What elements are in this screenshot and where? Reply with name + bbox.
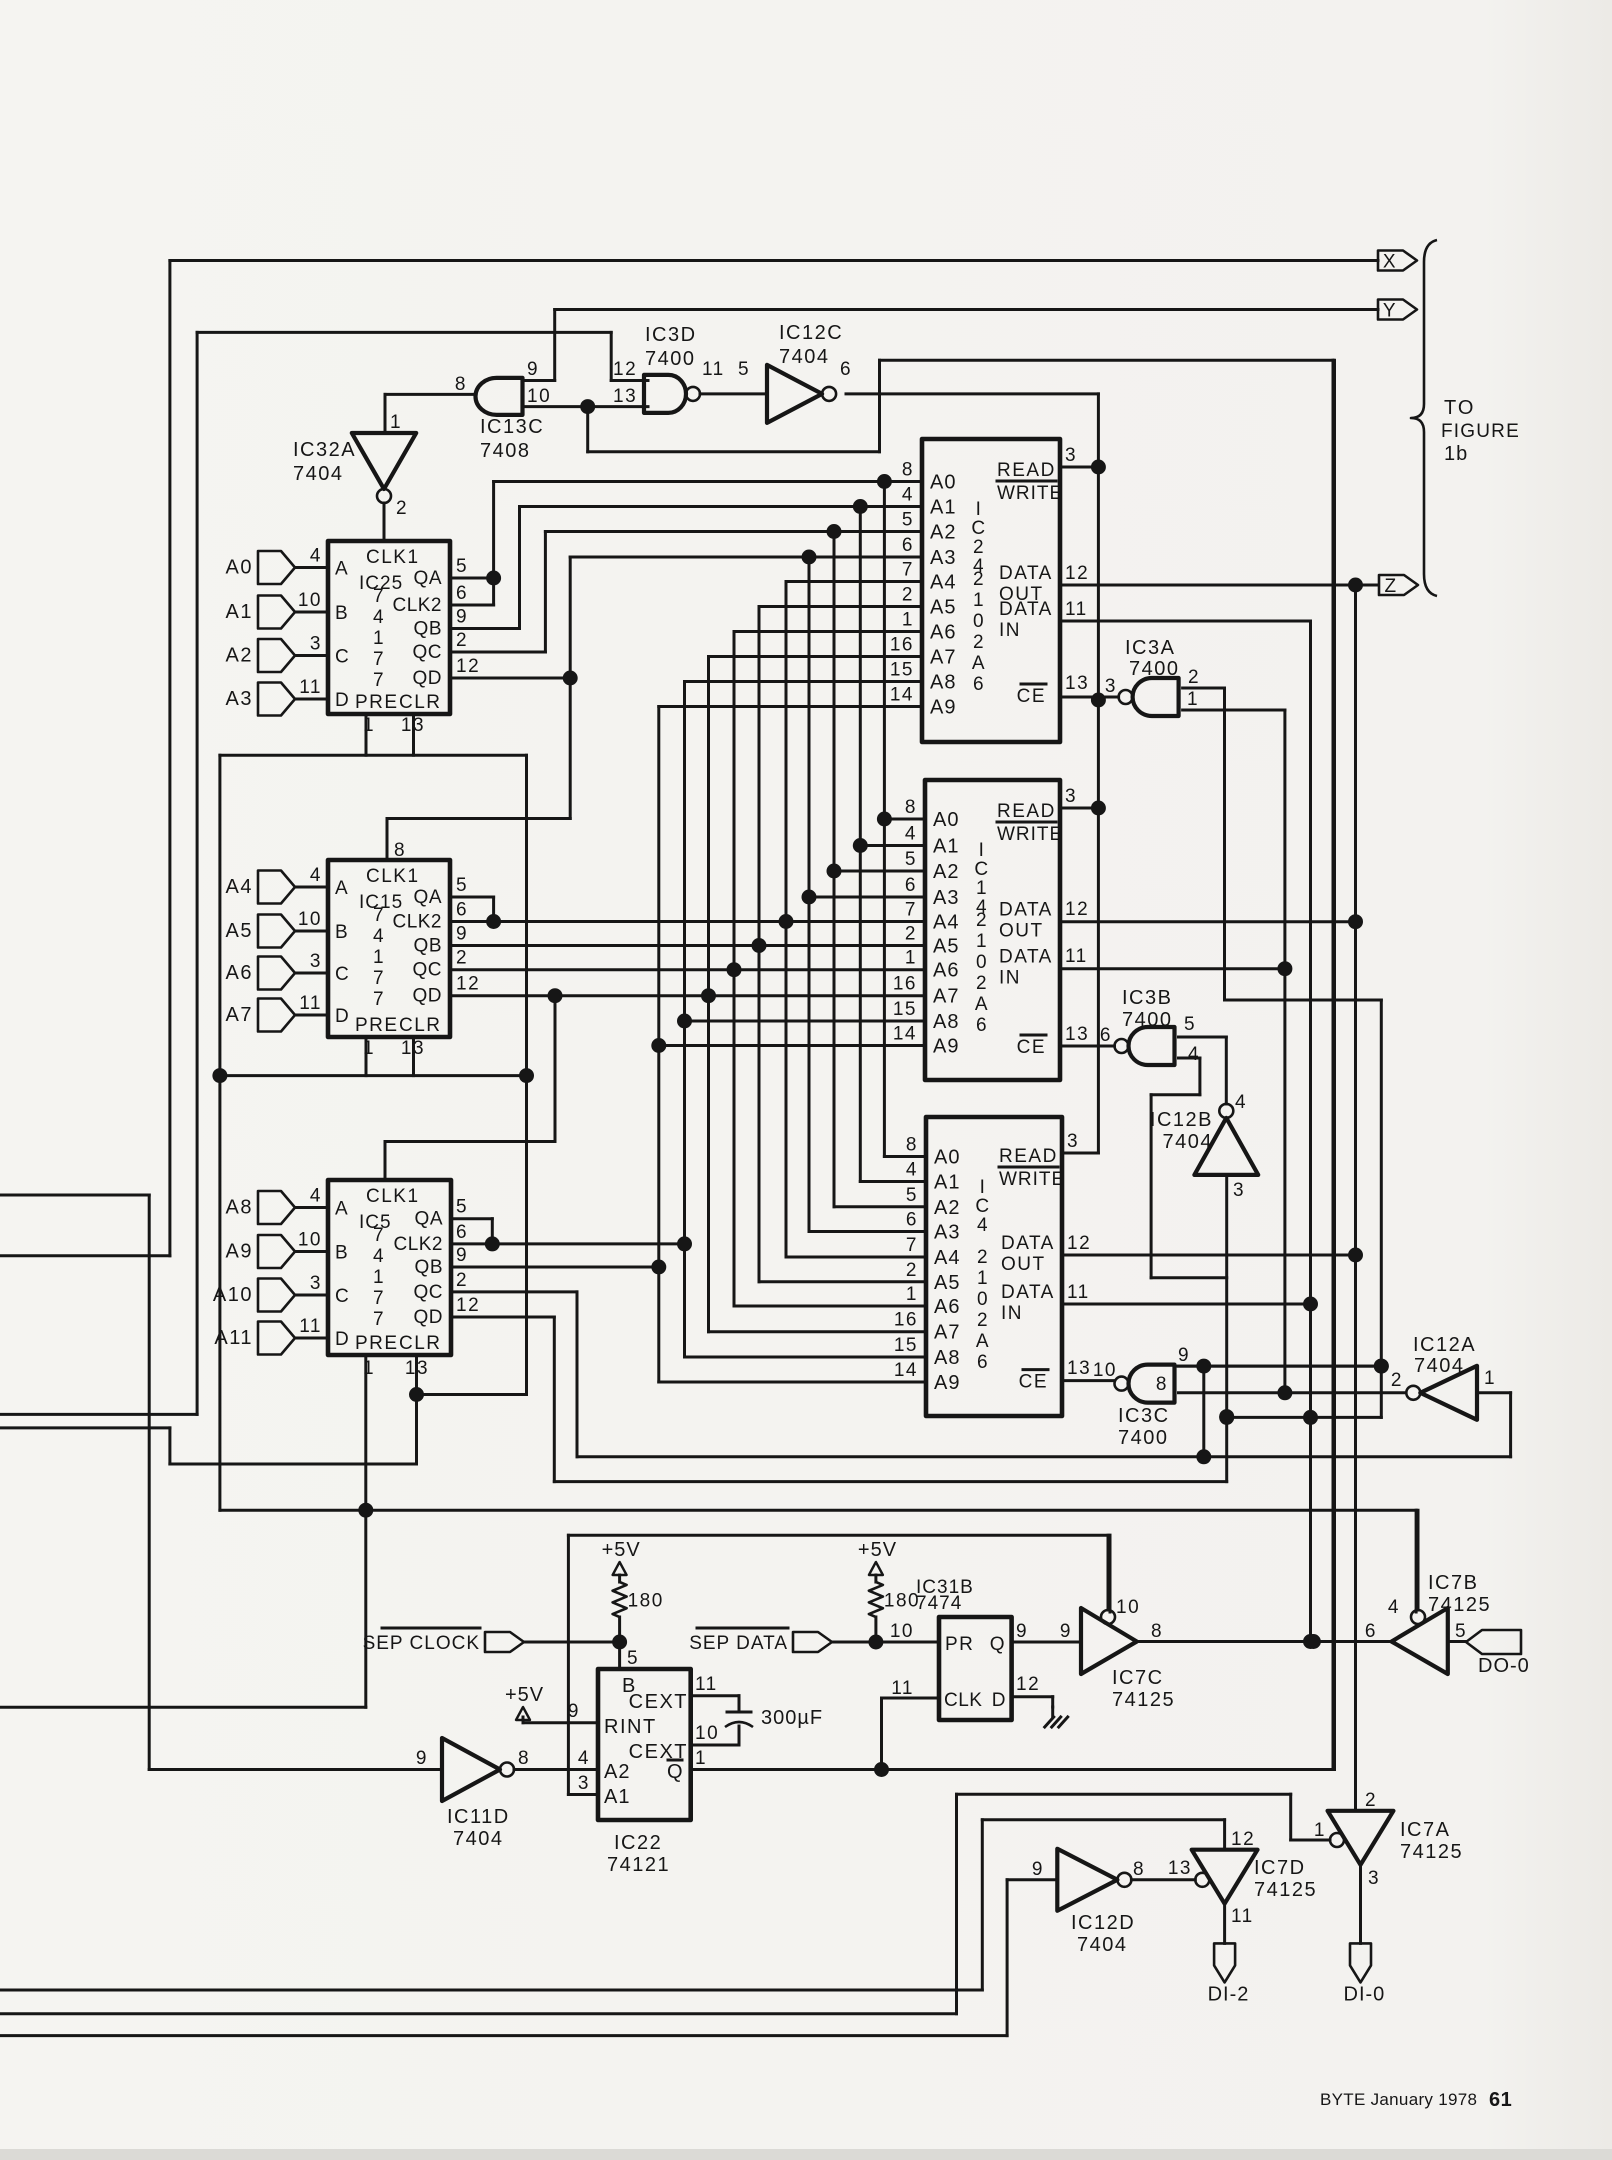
svg-text:CLR: CLR bbox=[399, 1015, 442, 1036]
svg-text:7400: 7400 bbox=[1122, 1009, 1173, 1031]
svg-text:A3: A3 bbox=[934, 1222, 960, 1244]
svg-text:WRITE: WRITE bbox=[997, 483, 1063, 504]
svg-text:IC32A: IC32A bbox=[293, 439, 356, 461]
svg-text:1: 1 bbox=[902, 610, 914, 631]
svg-text:1: 1 bbox=[363, 715, 375, 736]
svg-text:C: C bbox=[335, 1286, 350, 1307]
svg-text:A6: A6 bbox=[934, 1296, 960, 1318]
svg-text:IN: IN bbox=[1001, 1303, 1023, 1324]
svg-text:2: 2 bbox=[1391, 1370, 1403, 1391]
svg-text:CLK: CLK bbox=[944, 1690, 982, 1711]
svg-text:6: 6 bbox=[456, 1222, 468, 1243]
svg-text:2: 2 bbox=[977, 1247, 989, 1268]
svg-text:4: 4 bbox=[906, 1160, 918, 1181]
svg-text:OUT: OUT bbox=[1001, 1254, 1046, 1275]
svg-text:CLK2: CLK2 bbox=[392, 912, 442, 933]
svg-text:A0: A0 bbox=[934, 1147, 960, 1169]
svg-text:CLK1: CLK1 bbox=[366, 547, 420, 568]
svg-text:7: 7 bbox=[906, 1235, 918, 1256]
svg-text:IC7C: IC7C bbox=[1112, 1667, 1164, 1689]
svg-text:A4: A4 bbox=[934, 1247, 960, 1269]
svg-text:4: 4 bbox=[373, 926, 385, 947]
svg-text:A6: A6 bbox=[933, 960, 959, 982]
svg-text:C: C bbox=[335, 964, 350, 985]
svg-text:10: 10 bbox=[890, 1621, 914, 1642]
svg-text:CLR: CLR bbox=[399, 1333, 442, 1354]
svg-text:A4: A4 bbox=[226, 876, 253, 898]
svg-text:4: 4 bbox=[578, 1748, 590, 1769]
svg-text:B: B bbox=[335, 922, 349, 943]
svg-text:7404: 7404 bbox=[1414, 1355, 1465, 1377]
svg-text:A9: A9 bbox=[933, 1036, 959, 1058]
svg-text:X: X bbox=[1383, 252, 1397, 273]
svg-text:A9: A9 bbox=[226, 1241, 253, 1263]
svg-text:16: 16 bbox=[893, 974, 917, 995]
svg-text:1: 1 bbox=[1484, 1368, 1496, 1389]
svg-text:3: 3 bbox=[1065, 445, 1077, 466]
svg-text:2: 2 bbox=[1365, 1790, 1377, 1811]
svg-text:13: 13 bbox=[1168, 1858, 1192, 1879]
svg-text:6: 6 bbox=[976, 1015, 988, 1036]
svg-text:7: 7 bbox=[373, 989, 385, 1010]
svg-text:QD: QD bbox=[413, 668, 443, 689]
svg-text:12: 12 bbox=[1067, 1233, 1091, 1254]
svg-text:CEXT: CEXT bbox=[629, 1741, 688, 1763]
svg-text:D: D bbox=[992, 1690, 1007, 1711]
svg-text:A2: A2 bbox=[604, 1761, 630, 1783]
svg-text:DATA: DATA bbox=[999, 563, 1053, 584]
svg-text:12: 12 bbox=[456, 1295, 480, 1316]
svg-text:8: 8 bbox=[455, 374, 467, 395]
svg-text:I: I bbox=[980, 1177, 987, 1198]
svg-text:13: 13 bbox=[401, 715, 425, 736]
svg-text:7: 7 bbox=[373, 1225, 385, 1246]
svg-text:Q: Q bbox=[990, 1634, 1006, 1655]
svg-text:QA: QA bbox=[415, 1209, 443, 1230]
svg-text:3: 3 bbox=[578, 1773, 590, 1794]
svg-text:IN: IN bbox=[999, 620, 1021, 641]
svg-text:7: 7 bbox=[373, 649, 385, 670]
svg-text:14: 14 bbox=[894, 1360, 918, 1381]
svg-text:+5V: +5V bbox=[505, 1684, 544, 1706]
svg-text:2: 2 bbox=[976, 910, 988, 931]
svg-text:3: 3 bbox=[310, 951, 322, 972]
svg-text:DATA: DATA bbox=[1001, 1282, 1055, 1303]
svg-text:CE: CE bbox=[1017, 686, 1046, 707]
svg-text:8: 8 bbox=[906, 1135, 918, 1156]
svg-text:1: 1 bbox=[1314, 1820, 1326, 1841]
svg-text:IC13C: IC13C bbox=[480, 416, 544, 438]
svg-text:9: 9 bbox=[456, 924, 468, 945]
svg-text:74125: 74125 bbox=[1254, 1879, 1317, 1901]
svg-text:C: C bbox=[975, 1196, 990, 1217]
svg-text:74125: 74125 bbox=[1428, 1594, 1491, 1616]
svg-text:8: 8 bbox=[1151, 1621, 1163, 1642]
svg-text:6: 6 bbox=[840, 359, 852, 380]
svg-text:4: 4 bbox=[310, 546, 322, 567]
svg-text:CEXT: CEXT bbox=[629, 1691, 688, 1713]
svg-text:74125: 74125 bbox=[1400, 1841, 1463, 1863]
svg-text:6: 6 bbox=[902, 535, 914, 556]
svg-text:C: C bbox=[335, 647, 350, 668]
svg-text:6: 6 bbox=[905, 875, 917, 896]
svg-text:7400: 7400 bbox=[645, 348, 696, 370]
svg-text:3: 3 bbox=[1233, 1180, 1245, 1201]
svg-text:15: 15 bbox=[894, 1335, 918, 1356]
svg-text:PRE: PRE bbox=[355, 692, 399, 713]
svg-text:8: 8 bbox=[902, 460, 914, 481]
svg-text:2: 2 bbox=[976, 973, 988, 994]
svg-text:DI-0: DI-0 bbox=[1344, 1983, 1386, 2005]
svg-text:6: 6 bbox=[906, 1210, 918, 1231]
svg-text:7: 7 bbox=[373, 1288, 385, 1309]
svg-text:11: 11 bbox=[1065, 946, 1088, 967]
svg-text:14: 14 bbox=[890, 685, 914, 706]
svg-text:9: 9 bbox=[1178, 1345, 1190, 1366]
svg-text:6: 6 bbox=[1365, 1621, 1377, 1642]
svg-text:A2: A2 bbox=[930, 522, 956, 544]
svg-text:A: A bbox=[335, 559, 349, 580]
svg-text:3: 3 bbox=[310, 634, 322, 655]
svg-text:74121: 74121 bbox=[607, 1854, 670, 1876]
svg-text:IC7A: IC7A bbox=[1400, 1819, 1450, 1841]
svg-text:1: 1 bbox=[373, 628, 385, 649]
svg-text:13: 13 bbox=[1065, 673, 1089, 694]
svg-text:7474: 7474 bbox=[916, 1593, 962, 1614]
svg-text:2: 2 bbox=[905, 924, 917, 945]
svg-text:1: 1 bbox=[906, 1284, 918, 1305]
svg-text:A4: A4 bbox=[930, 572, 956, 594]
svg-text:5: 5 bbox=[456, 556, 468, 577]
svg-text:10: 10 bbox=[1116, 1597, 1140, 1618]
svg-text:2: 2 bbox=[977, 1310, 989, 1331]
svg-text:READ: READ bbox=[999, 1146, 1058, 1167]
svg-text:SEP DATA: SEP DATA bbox=[689, 1633, 788, 1654]
svg-text:A1: A1 bbox=[930, 497, 956, 519]
svg-text:QD: QD bbox=[413, 986, 443, 1007]
svg-text:13: 13 bbox=[401, 1038, 425, 1059]
svg-text:5: 5 bbox=[1184, 1014, 1196, 1035]
svg-text:A11: A11 bbox=[214, 1327, 253, 1349]
svg-text:A5: A5 bbox=[934, 1272, 960, 1294]
svg-text:CLR: CLR bbox=[399, 692, 442, 713]
svg-text:A7: A7 bbox=[226, 1004, 253, 1026]
svg-text:5: 5 bbox=[902, 510, 914, 531]
svg-text:8: 8 bbox=[1156, 1374, 1168, 1395]
svg-text:7404: 7404 bbox=[1163, 1131, 1214, 1153]
svg-text:4: 4 bbox=[1188, 1044, 1200, 1065]
svg-text:0: 0 bbox=[977, 1289, 989, 1310]
svg-text:9: 9 bbox=[527, 359, 539, 380]
svg-text:7: 7 bbox=[373, 1309, 385, 1330]
svg-text:5: 5 bbox=[456, 1197, 468, 1218]
svg-text:CLK2: CLK2 bbox=[393, 1234, 443, 1255]
svg-text:7: 7 bbox=[902, 560, 914, 581]
svg-text:11: 11 bbox=[1065, 599, 1088, 620]
svg-text:0: 0 bbox=[976, 952, 988, 973]
svg-text:2: 2 bbox=[906, 1260, 918, 1281]
svg-text:7404: 7404 bbox=[1077, 1934, 1128, 1956]
svg-text:12: 12 bbox=[613, 359, 637, 380]
svg-text:A9: A9 bbox=[934, 1372, 960, 1394]
svg-text:15: 15 bbox=[890, 660, 914, 681]
svg-text:A9: A9 bbox=[930, 697, 956, 719]
svg-text:C: C bbox=[971, 518, 986, 539]
svg-text:A10: A10 bbox=[213, 1284, 253, 1306]
svg-text:Z: Z bbox=[1384, 576, 1397, 597]
svg-text:1: 1 bbox=[363, 1358, 375, 1379]
svg-text:A8: A8 bbox=[933, 1011, 959, 1033]
svg-text:IC12D: IC12D bbox=[1071, 1912, 1135, 1934]
svg-text:QC: QC bbox=[414, 1282, 444, 1303]
svg-text:2: 2 bbox=[973, 537, 985, 558]
svg-text:A6: A6 bbox=[226, 962, 253, 984]
svg-text:10: 10 bbox=[527, 386, 551, 407]
svg-text:8: 8 bbox=[1133, 1859, 1145, 1880]
svg-text:B: B bbox=[335, 1243, 349, 1264]
svg-text:1: 1 bbox=[373, 1267, 385, 1288]
svg-text:Q: Q bbox=[667, 1761, 684, 1783]
svg-text:A2: A2 bbox=[226, 645, 253, 667]
svg-text:A7: A7 bbox=[933, 986, 959, 1008]
svg-text:300µF: 300µF bbox=[761, 1707, 823, 1729]
svg-text:1: 1 bbox=[973, 590, 985, 611]
svg-text:9: 9 bbox=[1016, 1621, 1028, 1642]
svg-text:+5V: +5V bbox=[602, 1539, 641, 1561]
svg-text:2: 2 bbox=[902, 585, 914, 606]
svg-text:4: 4 bbox=[310, 1186, 322, 1207]
svg-text:IC3A: IC3A bbox=[1125, 637, 1175, 659]
svg-text:5: 5 bbox=[627, 1648, 639, 1669]
svg-text:4: 4 bbox=[1388, 1597, 1400, 1618]
svg-text:10: 10 bbox=[695, 1723, 719, 1744]
svg-text:13: 13 bbox=[1065, 1024, 1089, 1045]
svg-text:D: D bbox=[335, 690, 350, 711]
svg-text:A3: A3 bbox=[930, 547, 956, 569]
svg-text:A: A bbox=[975, 994, 989, 1015]
svg-text:13: 13 bbox=[1067, 1358, 1091, 1379]
svg-text:IC3B: IC3B bbox=[1122, 987, 1172, 1009]
svg-text:IC12A: IC12A bbox=[1413, 1334, 1476, 1356]
svg-text:IC3D: IC3D bbox=[645, 324, 697, 346]
svg-text:I: I bbox=[979, 840, 986, 861]
svg-text:1: 1 bbox=[390, 412, 402, 433]
svg-text:1b: 1b bbox=[1444, 443, 1468, 465]
svg-text:10: 10 bbox=[298, 909, 322, 930]
svg-text:A0: A0 bbox=[226, 557, 253, 579]
svg-text:QB: QB bbox=[414, 619, 442, 640]
svg-text:2: 2 bbox=[456, 1270, 468, 1291]
svg-text:C: C bbox=[974, 859, 989, 880]
svg-text:7: 7 bbox=[373, 968, 385, 989]
svg-text:2: 2 bbox=[973, 569, 985, 590]
svg-text:11: 11 bbox=[695, 1674, 718, 1695]
svg-text:15: 15 bbox=[893, 999, 917, 1020]
svg-text:9: 9 bbox=[456, 607, 468, 628]
svg-text:A: A bbox=[335, 878, 349, 899]
svg-text:READ: READ bbox=[997, 801, 1056, 822]
svg-text:1: 1 bbox=[363, 1038, 375, 1059]
svg-text:8: 8 bbox=[394, 840, 406, 861]
svg-text:13: 13 bbox=[613, 386, 637, 407]
svg-text:IC7D: IC7D bbox=[1254, 1857, 1306, 1879]
svg-text:WRITE: WRITE bbox=[997, 824, 1063, 845]
svg-text:10: 10 bbox=[298, 1230, 322, 1251]
svg-text:7404: 7404 bbox=[453, 1828, 504, 1850]
svg-text:DATA: DATA bbox=[999, 900, 1053, 921]
svg-text:CLK1: CLK1 bbox=[366, 1186, 420, 1207]
svg-text:7: 7 bbox=[905, 900, 917, 921]
svg-text:10: 10 bbox=[298, 590, 322, 611]
svg-text:1: 1 bbox=[695, 1748, 707, 1769]
svg-text:D: D bbox=[335, 1006, 350, 1027]
svg-text:DO-0: DO-0 bbox=[1478, 1655, 1530, 1677]
svg-text:IC12C: IC12C bbox=[779, 322, 843, 344]
svg-text:A3: A3 bbox=[226, 688, 253, 710]
svg-text:13: 13 bbox=[405, 1358, 429, 1379]
svg-text:1: 1 bbox=[1187, 689, 1199, 710]
svg-text:A: A bbox=[972, 653, 986, 674]
svg-text:180: 180 bbox=[628, 1591, 664, 1612]
svg-text:11: 11 bbox=[891, 1678, 914, 1699]
svg-text:11: 11 bbox=[1067, 1282, 1090, 1303]
svg-text:4: 4 bbox=[373, 607, 385, 628]
svg-text:FIGURE: FIGURE bbox=[1441, 421, 1520, 442]
svg-text:4: 4 bbox=[977, 1215, 989, 1236]
svg-text:IC12B: IC12B bbox=[1150, 1109, 1213, 1131]
svg-text:CLK2: CLK2 bbox=[392, 595, 442, 616]
svg-text:QB: QB bbox=[414, 936, 442, 957]
svg-text:16: 16 bbox=[890, 635, 914, 656]
svg-text:6: 6 bbox=[977, 1352, 989, 1373]
svg-text:9: 9 bbox=[1060, 1621, 1072, 1642]
svg-text:+5V: +5V bbox=[858, 1539, 897, 1561]
svg-text:CLK1: CLK1 bbox=[366, 866, 420, 887]
svg-text:QA: QA bbox=[414, 568, 442, 589]
svg-text:4: 4 bbox=[310, 865, 322, 886]
svg-text:IN: IN bbox=[999, 968, 1021, 989]
svg-text:A3: A3 bbox=[933, 887, 959, 909]
svg-text:74125: 74125 bbox=[1112, 1689, 1175, 1711]
svg-text:READ: READ bbox=[997, 460, 1056, 481]
svg-text:7404: 7404 bbox=[293, 463, 344, 485]
svg-text:1: 1 bbox=[373, 947, 385, 968]
svg-text:4: 4 bbox=[905, 824, 917, 845]
svg-text:5: 5 bbox=[1455, 1621, 1467, 1642]
svg-text:6: 6 bbox=[1100, 1025, 1112, 1046]
svg-text:6: 6 bbox=[456, 900, 468, 921]
svg-text:7: 7 bbox=[373, 670, 385, 691]
svg-text:11: 11 bbox=[702, 359, 725, 380]
svg-text:A: A bbox=[335, 1199, 349, 1220]
svg-text:DATA: DATA bbox=[1001, 1233, 1055, 1254]
svg-text:QC: QC bbox=[413, 642, 443, 663]
svg-text:5: 5 bbox=[906, 1185, 918, 1206]
svg-text:PRE: PRE bbox=[355, 1333, 399, 1354]
svg-text:A1: A1 bbox=[934, 1172, 960, 1194]
svg-text:11: 11 bbox=[1231, 1906, 1254, 1927]
svg-text:0: 0 bbox=[973, 611, 985, 632]
svg-text:IC7B: IC7B bbox=[1428, 1572, 1478, 1594]
svg-text:12: 12 bbox=[1016, 1674, 1040, 1695]
svg-text:9: 9 bbox=[1032, 1859, 1044, 1880]
svg-text:QD: QD bbox=[414, 1307, 444, 1328]
svg-text:12: 12 bbox=[1231, 1829, 1255, 1850]
svg-text:4: 4 bbox=[902, 485, 914, 506]
svg-text:1: 1 bbox=[905, 948, 917, 969]
svg-text:D: D bbox=[335, 1329, 350, 1350]
svg-text:A8: A8 bbox=[226, 1197, 253, 1219]
svg-text:A8: A8 bbox=[930, 672, 956, 694]
svg-text:11: 11 bbox=[299, 993, 322, 1014]
svg-text:9: 9 bbox=[568, 1701, 580, 1722]
svg-text:16: 16 bbox=[894, 1310, 918, 1331]
svg-text:3: 3 bbox=[1065, 786, 1077, 807]
svg-text:PRE: PRE bbox=[355, 1015, 399, 1036]
svg-text:A8: A8 bbox=[934, 1347, 960, 1369]
svg-text:3: 3 bbox=[1067, 1131, 1079, 1152]
svg-text:CE: CE bbox=[1019, 1372, 1048, 1393]
svg-text:1: 1 bbox=[976, 878, 988, 899]
svg-text:DATA: DATA bbox=[999, 947, 1053, 968]
svg-text:OUT: OUT bbox=[999, 921, 1044, 942]
svg-text:7408: 7408 bbox=[480, 440, 531, 462]
svg-text:3: 3 bbox=[1368, 1868, 1380, 1889]
svg-text:6: 6 bbox=[456, 583, 468, 604]
svg-text:QA: QA bbox=[414, 887, 442, 908]
svg-text:A2: A2 bbox=[934, 1197, 960, 1219]
svg-text:A7: A7 bbox=[934, 1322, 960, 1344]
svg-text:4: 4 bbox=[373, 1246, 385, 1267]
svg-text:12: 12 bbox=[1065, 563, 1089, 584]
svg-text:SEP CLOCK: SEP CLOCK bbox=[363, 1633, 480, 1654]
svg-text:7400: 7400 bbox=[1118, 1427, 1169, 1449]
svg-text:WRITE: WRITE bbox=[999, 1169, 1065, 1190]
svg-text:8: 8 bbox=[905, 797, 917, 818]
svg-text:2: 2 bbox=[973, 632, 985, 653]
svg-text:A0: A0 bbox=[933, 809, 959, 831]
svg-text:CE: CE bbox=[1017, 1037, 1046, 1058]
svg-text:IC3C: IC3C bbox=[1118, 1405, 1170, 1427]
svg-text:5: 5 bbox=[456, 875, 468, 896]
svg-text:IC22: IC22 bbox=[614, 1832, 662, 1854]
svg-text:7400: 7400 bbox=[1129, 658, 1180, 680]
svg-text:9: 9 bbox=[416, 1748, 428, 1769]
svg-text:A: A bbox=[976, 1331, 990, 1352]
svg-text:12: 12 bbox=[1065, 899, 1089, 920]
svg-text:IC11D: IC11D bbox=[447, 1806, 510, 1828]
svg-text:1: 1 bbox=[977, 1268, 989, 1289]
svg-text:Y: Y bbox=[1383, 301, 1397, 322]
svg-text:1: 1 bbox=[976, 931, 988, 952]
svg-text:3: 3 bbox=[310, 1273, 322, 1294]
svg-text:6: 6 bbox=[973, 674, 985, 695]
svg-text:4: 4 bbox=[1235, 1092, 1247, 1113]
svg-text:180: 180 bbox=[884, 1591, 920, 1612]
svg-text:A4: A4 bbox=[933, 912, 959, 934]
svg-text:A1: A1 bbox=[933, 836, 959, 858]
svg-text:A0: A0 bbox=[930, 472, 956, 494]
svg-text:QB: QB bbox=[415, 1257, 443, 1278]
svg-text:PR: PR bbox=[945, 1634, 974, 1655]
svg-text:2: 2 bbox=[456, 948, 468, 969]
svg-text:8: 8 bbox=[518, 1748, 530, 1769]
svg-text:2: 2 bbox=[456, 630, 468, 651]
svg-text:61: 61 bbox=[1489, 2089, 1512, 2111]
svg-text:QC: QC bbox=[413, 960, 443, 981]
svg-text:TO: TO bbox=[1444, 397, 1475, 419]
svg-text:A5: A5 bbox=[930, 597, 956, 619]
